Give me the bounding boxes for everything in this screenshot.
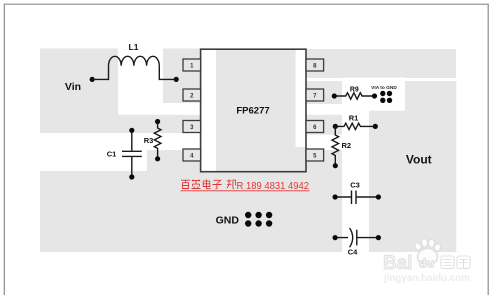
pin 7: [306, 89, 324, 101]
node: C1 top dot: [129, 128, 134, 133]
label L1: [129, 42, 139, 52]
label R2: [342, 141, 352, 150]
svg-text:du: du: [419, 256, 435, 271]
pin 5: [306, 149, 324, 161]
node: C4 right dot (Vout net): [376, 235, 381, 240]
node: SW terminal dot: [174, 77, 179, 82]
white keepout column around R1 R2 C3 C4: [342, 111, 369, 252]
white keepout around R9 and VIA to GND: [342, 78, 405, 111]
net zone: top band right of IC: [306, 49, 456, 78]
svg-text:Bai: Bai: [383, 253, 413, 274]
pin 3: [183, 121, 201, 133]
node: R3 bottom dot: [155, 156, 160, 161]
node: C4 left dot (GND net): [333, 235, 338, 240]
ground label GND: [216, 215, 240, 227]
capacitor C4 (polarized): [335, 228, 378, 247]
label R9: [350, 87, 359, 94]
op-amp IC U1 FP6277 body: [201, 49, 306, 172]
node: Vin terminal dot: [90, 77, 95, 82]
label C3: [350, 181, 360, 190]
label C1: [107, 150, 117, 159]
svg-text:L1: L1: [129, 42, 139, 52]
svg-text:Vin: Vin: [65, 81, 81, 93]
net zone: SW plane behind pins 1-2: [163, 49, 201, 104]
node: R3 top dot: [155, 119, 160, 124]
wire L1 to SW node: [159, 66, 176, 80]
node: C3 right dot (Vout net): [376, 194, 381, 199]
svg-text:VIA to GND: VIA to GND: [371, 85, 397, 91]
net zone: pin4 band (left): [147, 150, 201, 172]
svg-text:R 189 4831 4942: R 189 4831 4942: [237, 180, 310, 192]
node: R1 left junction dot: [333, 124, 338, 129]
net zone: pin5 band (right): [306, 150, 342, 172]
label C4: [348, 248, 358, 257]
pin 8: [306, 59, 324, 71]
svg-text:C1: C1: [107, 150, 117, 159]
resistor R1: [335, 123, 375, 129]
svg-text:C3: C3: [350, 181, 360, 190]
capacitor C3: [335, 191, 378, 205]
wire Vin to L1: [92, 66, 108, 80]
node: R9 left dot (pin7 net): [332, 93, 337, 98]
inductor L1: [109, 56, 160, 66]
value label: red seller text: [181, 180, 310, 192]
resistor R2: [332, 126, 339, 165]
net zone: pin3 band (left): [40, 115, 201, 133]
node: C3 left dot (GND net): [333, 194, 338, 199]
node: R9 right dot: [372, 93, 377, 98]
svg-text:R3: R3: [144, 136, 154, 145]
svg-text:R1: R1: [349, 113, 359, 122]
svg-text:GND: GND: [216, 215, 240, 227]
watermark: Baidu Jingyan logo: [383, 239, 470, 285]
svg-text:R2: R2: [342, 141, 352, 150]
capacitor C1: [122, 130, 142, 177]
svg-text:FP6277: FP6277: [236, 106, 269, 117]
svg-text:C4: C4: [348, 248, 358, 257]
node: R2 bottom dot (GND net): [333, 163, 338, 168]
net zone: Vin copper plane: [40, 49, 118, 116]
pin 2: [183, 89, 201, 101]
node: C1 bottom dot: [129, 174, 134, 179]
via dots to GND: [380, 91, 392, 103]
label Vin: [65, 81, 81, 93]
net zone: center plane under IC: [216, 49, 306, 171]
net zone: pin6 band (right): [306, 115, 342, 135]
node: R1 right dot (Vout net): [373, 124, 378, 129]
pin 4: [183, 149, 201, 161]
label Vout: [406, 152, 432, 166]
pin 1: [183, 59, 201, 71]
label R3: [144, 136, 154, 145]
net zone: Vout copper plane: [369, 81, 456, 252]
net zone: GND plane: [40, 171, 342, 252]
svg-text:jingyan.baidu.com: jingyan.baidu.com: [383, 272, 470, 284]
resistor R9: [334, 93, 374, 99]
net zone: pin7 band: [306, 81, 342, 104]
ground via dots: [245, 212, 272, 227]
svg-text:R9: R9: [350, 87, 359, 94]
label R1: [349, 113, 359, 122]
svg-text:Vout: Vout: [406, 152, 432, 166]
resistor R3: [154, 122, 161, 159]
pin 6: [306, 121, 324, 133]
label VIA to GND: [371, 85, 397, 91]
